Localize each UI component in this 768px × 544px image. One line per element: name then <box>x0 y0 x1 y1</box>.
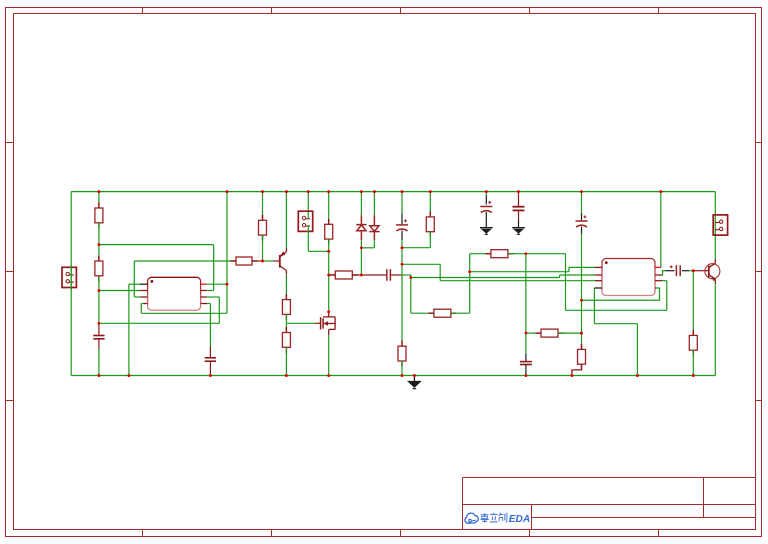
wire D2 top lead <box>373 192 375 216</box>
wire Q4 base node down <box>692 271 694 336</box>
U2 right pins <box>655 267 662 288</box>
capacitor CP1 (polarized) <box>396 219 408 231</box>
capacitor CP4 (polarized) <box>480 201 492 213</box>
wire node E vertical <box>469 254 471 314</box>
wire C5 top lead <box>518 192 520 207</box>
border zone ticks right <box>756 143 762 401</box>
capacitor C4 <box>205 358 216 361</box>
resistor R5 <box>282 294 290 320</box>
wire R2 bottom <box>98 276 100 324</box>
wire node G bottom horizontal <box>566 309 667 311</box>
wire Q1 emitter to top bus <box>285 192 287 248</box>
resistor R3 <box>231 257 258 265</box>
wire R10 top lead <box>429 192 431 217</box>
wire R7 top lead <box>328 192 330 225</box>
wire Q4 base stub <box>693 270 709 272</box>
wire J2 from top bus <box>307 192 309 218</box>
wire U1 pin L3 loop <box>134 296 140 298</box>
wire node G down <box>565 254 567 311</box>
wire D1 top lead <box>360 192 362 216</box>
resistor R6 <box>282 327 290 353</box>
connector J3 <box>713 215 727 235</box>
svg-text:EDA: EDA <box>509 514 530 525</box>
wire J2 pin2 down <box>307 225 309 251</box>
wire U2 pin L4 route <box>593 288 595 324</box>
wire R6 to bottom bus <box>285 347 287 375</box>
wire top bus <box>71 191 715 193</box>
wire net A vertical <box>213 245 215 291</box>
diode D2 <box>369 215 379 240</box>
wire U1 pin L2 to left bus <box>99 290 140 292</box>
wire R11 left lead <box>411 312 434 314</box>
capacitor C3 <box>520 362 532 365</box>
wire node G up to U2 pin R3 <box>666 281 668 311</box>
wire diode node down <box>360 248 362 275</box>
capacitor C1 leads <box>98 323 100 335</box>
wire R12 right lead <box>508 253 526 255</box>
wire U2 pin R2 jog <box>662 271 666 275</box>
wire C3 top lead <box>525 333 527 354</box>
logo cloud icon <box>465 513 478 523</box>
wire C2 right lead <box>390 274 403 276</box>
junction dots misc <box>97 243 100 246</box>
wire left bus <box>70 192 72 376</box>
wire D1 bottom lead <box>360 240 362 248</box>
transistor Q3 (MOSFET) <box>321 311 336 335</box>
resistor R1 <box>95 203 103 229</box>
wire U2 pin R1 to top bus <box>660 192 662 268</box>
diode D1 <box>356 215 366 240</box>
logo text JiaLiChuang <box>480 513 507 523</box>
resistor R9 <box>398 341 406 367</box>
resistor R12 <box>485 250 513 258</box>
border zone ticks bottom <box>143 530 659 537</box>
wire net F long to jog <box>470 271 569 273</box>
wire node G vertical down <box>525 254 527 333</box>
wire CP1 top lead <box>401 192 403 214</box>
wire Q3 source to bus <box>328 335 330 376</box>
junction dots top bus <box>97 190 100 193</box>
wire R14 top lead <box>581 333 583 349</box>
wire R4 bottom lead <box>262 235 264 261</box>
wire gate node <box>286 322 315 324</box>
wire U1 pin R4 to C4 <box>207 303 210 305</box>
U1 right pins <box>201 284 208 303</box>
wire R8 to C2 lead <box>352 274 386 276</box>
capacitor C1 <box>93 336 104 339</box>
wire J2 to R7 node <box>308 250 328 252</box>
wire R3 to node <box>252 260 263 262</box>
capacitor C4 leads <box>209 347 211 358</box>
resistor R8 <box>330 271 358 279</box>
junction dots bottom bus <box>97 374 100 377</box>
wire R7 bottom <box>328 239 330 275</box>
wire R4 top lead <box>262 192 264 221</box>
wire R14 jog to bus <box>572 364 582 375</box>
wire node 323 horizontal <box>99 322 219 324</box>
op-amp/IC U1 <box>148 277 201 310</box>
wire net M horizontal <box>402 263 440 265</box>
wire diode join <box>361 247 374 249</box>
wire C1 lower lead <box>98 339 100 349</box>
resistor R10 <box>426 211 434 237</box>
wire R1 bottom to node <box>98 223 100 261</box>
wire Q3 drain <box>328 275 330 311</box>
wire node 323 vertical <box>218 297 220 323</box>
wire Q1 collector down <box>285 274 287 299</box>
wire net C long horizontal <box>411 277 560 279</box>
wire net M vertical <box>439 264 441 280</box>
resistor R13 <box>536 329 564 337</box>
wire U-loop left vertical <box>140 304 142 314</box>
resistor R7 <box>325 219 333 245</box>
wire R8 left lead <box>329 274 336 276</box>
title block <box>463 478 756 530</box>
op-amp/IC U2 <box>602 259 655 296</box>
wire left bus through J1 <box>70 265 72 290</box>
wire Q1 base stub <box>274 260 280 262</box>
wire jog down to net C <box>410 275 412 278</box>
wire R10 bottom <box>429 232 431 248</box>
wire D2 bottom lead <box>373 240 375 248</box>
border zone ticks top <box>143 8 659 14</box>
wire CP2 top lead <box>581 192 583 213</box>
wire J3 to Q4 <box>714 192 716 259</box>
wire net C down <box>410 278 412 314</box>
U1 left pins <box>140 284 148 303</box>
capacitor C2 <box>387 269 391 281</box>
wire net A to U1 pin <box>207 290 214 292</box>
wire CP2 down <box>581 234 583 333</box>
capacitor CP2 (polarized) <box>576 215 588 227</box>
resistor R2 <box>95 256 103 282</box>
wire R11 right lead <box>451 312 470 314</box>
wire U1 pin R1 to vertical <box>207 283 227 285</box>
wire R1 top lead <box>98 192 100 208</box>
wire R13 left lead <box>526 332 541 334</box>
wire node D to R10 <box>402 247 430 249</box>
wire U-loop from top bus <box>226 192 228 314</box>
wire net F to U2 pin L1 <box>569 266 595 268</box>
wire bottom bus <box>71 375 715 377</box>
ground GND2 <box>512 228 525 235</box>
wire R15 to bus <box>692 350 694 375</box>
resistor R4 <box>259 215 267 241</box>
wire net F jog <box>568 267 570 271</box>
wire net C to U2 pin L2 <box>560 274 595 276</box>
wire R13 right lead <box>558 332 582 334</box>
connector J2 <box>298 211 312 231</box>
wire U2 pin R4 loop <box>582 288 660 300</box>
resistor R11 <box>428 309 456 317</box>
transistor Q4 <box>705 259 720 284</box>
wire node B horizontal <box>134 260 236 262</box>
capacitor CP3 (polarized horizontal) <box>665 270 674 272</box>
wire R12 left lead <box>470 253 491 255</box>
transistor Q1 <box>280 248 287 274</box>
resistor R15 <box>689 330 697 356</box>
ground GND3 on bottom bus <box>408 376 421 389</box>
capacitor C5 <box>513 207 525 211</box>
wire U-loop bottom <box>141 312 227 314</box>
wire CP4 top lead <box>485 192 487 196</box>
wire R5-R6 node <box>285 314 287 332</box>
connector J1 <box>62 267 76 287</box>
wire U1 pin L1 black to bus <box>129 283 140 285</box>
ground GND1 <box>480 228 493 235</box>
wire node G to right <box>526 253 566 255</box>
wire R9 to bus <box>401 361 403 376</box>
border zone ticks left <box>6 143 14 401</box>
wire net A horizontal <box>99 244 214 246</box>
wire net C jog up <box>559 275 561 278</box>
wire Q4 emitter to bus <box>714 284 716 376</box>
resistor R14 <box>578 344 586 370</box>
wire net M long to U2 pin L3 <box>440 280 595 282</box>
wire node D vertical <box>401 248 403 347</box>
U2 left pins <box>594 267 602 288</box>
